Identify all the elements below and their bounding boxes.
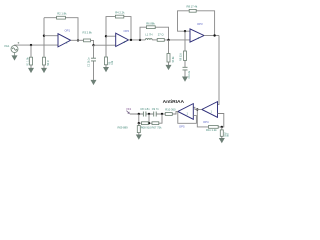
op-amp OP4 bbox=[202, 102, 218, 118]
wire op2 output row bbox=[129, 39, 146, 41]
wire R6 parallel loop bbox=[140, 27, 169, 40]
op-amp OP2 bbox=[116, 33, 129, 46]
svg-text:OP1: OP1 bbox=[65, 28, 71, 32]
svg-text:C2 26.1n: C2 26.1n bbox=[87, 57, 90, 67]
node input/R1 junction bbox=[30, 44, 32, 46]
svg-text:OP4: OP4 bbox=[203, 120, 209, 124]
resistor RG1 bbox=[43, 57, 46, 65]
svg-text:R07 75k: R07 75k bbox=[152, 125, 163, 129]
node ladder right bbox=[161, 113, 163, 115]
wire OP4 shunt branch bbox=[221, 127, 223, 138]
svg-text:R4 2.2k: R4 2.2k bbox=[115, 11, 125, 15]
capacitor C8 bbox=[143, 112, 146, 117]
wire R3 to node bbox=[91, 40, 94, 45]
svg-text:AntiRIAA: AntiRIAA bbox=[163, 99, 185, 105]
capacitor C2 bbox=[91, 58, 96, 61]
resistor R3 bbox=[84, 39, 91, 42]
resistor R13 bbox=[142, 122, 149, 125]
op-amp OP5 bbox=[178, 104, 194, 120]
svg-text:R8 17.4k: R8 17.4k bbox=[187, 4, 198, 8]
svg-text:OP5: OP5 bbox=[179, 125, 185, 129]
capacitor C9 bbox=[154, 112, 157, 117]
svg-text:R1 1.5k: R1 1.5k bbox=[27, 57, 30, 66]
ground below VG1 bbox=[12, 53, 17, 60]
wire to op1 upper input bbox=[44, 35, 58, 37]
resistor R8 bbox=[189, 9, 196, 12]
wire OP5 feedback loop bbox=[178, 111, 197, 123]
wire ladder row bbox=[130, 113, 166, 115]
probe VF2 bbox=[126, 111, 129, 114]
svg-text:97.6k: 97.6k bbox=[172, 56, 175, 63]
resistor RG4 bbox=[220, 130, 223, 136]
resistor R6 bbox=[146, 26, 155, 29]
ground below C6 bbox=[183, 77, 188, 81]
node C6 branch bbox=[184, 30, 186, 32]
wire ladder risers and bottom rail bbox=[139, 114, 162, 123]
svg-text:R2 1.8k: R2 1.8k bbox=[57, 12, 67, 16]
inductor L1 bbox=[145, 39, 152, 40]
node R11/shunt junction bbox=[221, 126, 223, 128]
svg-text:VG1: VG1 bbox=[4, 44, 10, 48]
node ladder mid bbox=[148, 113, 150, 115]
ground below R5 bbox=[104, 67, 109, 71]
ground below RG4 bbox=[219, 138, 224, 142]
wire to op2 lower input bbox=[94, 44, 116, 46]
resistor R10 bbox=[165, 113, 172, 116]
svg-text:R09 889: R09 889 bbox=[118, 125, 129, 129]
resistor R5 bbox=[105, 57, 108, 65]
capacitor C6 bbox=[183, 67, 188, 70]
node op1 output bbox=[77, 39, 79, 41]
node R3/C2 bbox=[92, 44, 94, 46]
voltage source VG1 bbox=[11, 42, 19, 53]
svg-text:C6 13u: C6 13u bbox=[188, 70, 191, 78]
svg-text:R6 88k: R6 88k bbox=[146, 21, 155, 25]
svg-text:R08 910: R08 910 bbox=[141, 125, 152, 129]
resistor R11 bbox=[209, 126, 219, 129]
node R6 branch left bbox=[139, 39, 141, 41]
resistor R7 series bbox=[157, 39, 164, 42]
resistor R shunt 97.6k bbox=[167, 54, 170, 63]
svg-text:R3 2.8k: R3 2.8k bbox=[83, 31, 93, 35]
node op2 output bbox=[130, 39, 132, 41]
wire R1 branch bbox=[30, 45, 32, 68]
resistor R9 bbox=[184, 51, 187, 61]
svg-text:27 Ω: 27 Ω bbox=[158, 32, 164, 36]
wire L1 to R7 bbox=[152, 39, 157, 41]
wire R9-C6 branch bbox=[184, 31, 186, 77]
resistor R2 bbox=[57, 16, 66, 19]
node ladder left bbox=[138, 113, 140, 115]
wire VG1 to input row bbox=[15, 44, 59, 46]
wire R2 feedback loop bbox=[44, 18, 78, 41]
svg-text:C8 1.8n: C8 1.8n bbox=[140, 107, 150, 111]
ground below R1 bbox=[29, 68, 34, 72]
svg-text:887: 887 bbox=[227, 132, 230, 137]
svg-text:50 Ω: 50 Ω bbox=[47, 60, 50, 65]
node rail mid bbox=[148, 122, 150, 124]
svg-text:C9 7n: C9 7n bbox=[152, 107, 160, 111]
wire C2 branch bbox=[93, 45, 95, 80]
node network/op3 input bbox=[167, 39, 169, 41]
resistor R14 bbox=[152, 122, 159, 125]
ground below C2 bbox=[91, 80, 96, 84]
wire R12 branch bbox=[138, 123, 140, 135]
wire R7 to node bbox=[164, 39, 190, 41]
wire R4 feedback loop stage2 bbox=[106, 17, 131, 68]
resistor R12 bbox=[137, 126, 140, 133]
wire output down right edge to OP4 bbox=[218, 36, 220, 105]
node OP4 output bbox=[196, 108, 198, 110]
wire shunt resistor branch bbox=[168, 40, 170, 65]
node op2 inverting input bbox=[105, 35, 107, 37]
ground below R12 bbox=[136, 135, 141, 139]
wire R8 feedback loop stage3 bbox=[178, 11, 215, 36]
node feedback/op1 inverting input bbox=[43, 35, 45, 37]
wire OP5 output to R10 bbox=[172, 111, 178, 114]
op-amp OP1 bbox=[58, 34, 71, 47]
svg-text:VF2: VF2 bbox=[126, 107, 132, 111]
resistor R4 bbox=[115, 15, 123, 18]
wire op3 output bbox=[204, 35, 219, 37]
resistor R1 bbox=[30, 57, 33, 65]
node rail left bbox=[138, 122, 140, 124]
svg-text:R9 316: R9 316 bbox=[179, 53, 182, 61]
ground below shunt bbox=[166, 65, 171, 69]
node op3 output bbox=[213, 34, 215, 36]
wire OP4 feedback loop with R11 bbox=[197, 109, 224, 126]
svg-text:R10 360: R10 360 bbox=[165, 108, 176, 112]
svg-text:R11 1.2k: R11 1.2k bbox=[206, 128, 217, 132]
op-amp OP3 bbox=[190, 29, 204, 42]
svg-text:OP3: OP3 bbox=[197, 22, 203, 26]
svg-text:L1 7H: L1 7H bbox=[145, 32, 152, 36]
svg-text:OP2: OP2 bbox=[124, 29, 130, 33]
wire OP4 output to OP5 bbox=[193, 107, 202, 109]
ground below RG1 bbox=[42, 68, 47, 72]
wire op1 output bbox=[71, 39, 84, 41]
wire feedback net stage1 (vertical) bbox=[43, 18, 45, 68]
wire to op2 upper input bbox=[106, 35, 116, 37]
